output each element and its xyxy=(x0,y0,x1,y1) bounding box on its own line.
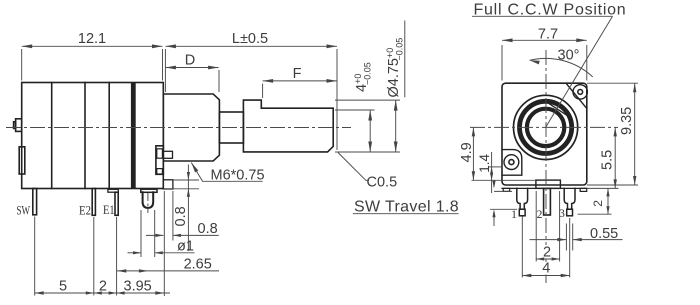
svg-text:M6*0.75: M6*0.75 xyxy=(211,168,265,184)
svg-text:2: 2 xyxy=(591,200,605,207)
svg-text:E1: E1 xyxy=(103,203,115,217)
svg-text:0.8: 0.8 xyxy=(198,221,218,237)
svg-text:2: 2 xyxy=(543,245,551,261)
svg-text:SW: SW xyxy=(17,204,31,218)
svg-text:12.1: 12.1 xyxy=(78,31,106,47)
svg-text:5: 5 xyxy=(59,279,67,295)
svg-text:C0.5: C0.5 xyxy=(367,175,398,191)
svg-text:1.4: 1.4 xyxy=(477,153,492,172)
svg-text:3: 3 xyxy=(559,208,565,220)
svg-text:4: 4 xyxy=(542,261,550,277)
svg-text:3.95: 3.95 xyxy=(124,279,152,295)
svg-text:0.55: 0.55 xyxy=(590,226,618,242)
svg-text:4.9: 4.9 xyxy=(459,142,475,162)
svg-text:ø1: ø1 xyxy=(177,239,194,255)
svg-text:9.35: 9.35 xyxy=(619,107,635,135)
svg-text:Full C.C.W Position: Full C.C.W Position xyxy=(474,2,627,19)
svg-text:2: 2 xyxy=(537,209,543,221)
svg-text:SW Travel 1.8: SW Travel 1.8 xyxy=(354,199,459,216)
svg-text:D: D xyxy=(185,53,195,69)
svg-text:2.65: 2.65 xyxy=(184,257,212,273)
svg-text:F: F xyxy=(293,66,302,82)
svg-text:0.8: 0.8 xyxy=(173,206,189,226)
svg-text:E2: E2 xyxy=(79,204,91,218)
svg-text:2: 2 xyxy=(99,279,107,295)
svg-text:5.5: 5.5 xyxy=(600,150,616,170)
svg-text:1: 1 xyxy=(511,209,517,221)
svg-text:7.7: 7.7 xyxy=(538,27,558,43)
svg-text:30°: 30° xyxy=(558,48,580,64)
svg-text:L±0.5: L±0.5 xyxy=(232,31,268,47)
